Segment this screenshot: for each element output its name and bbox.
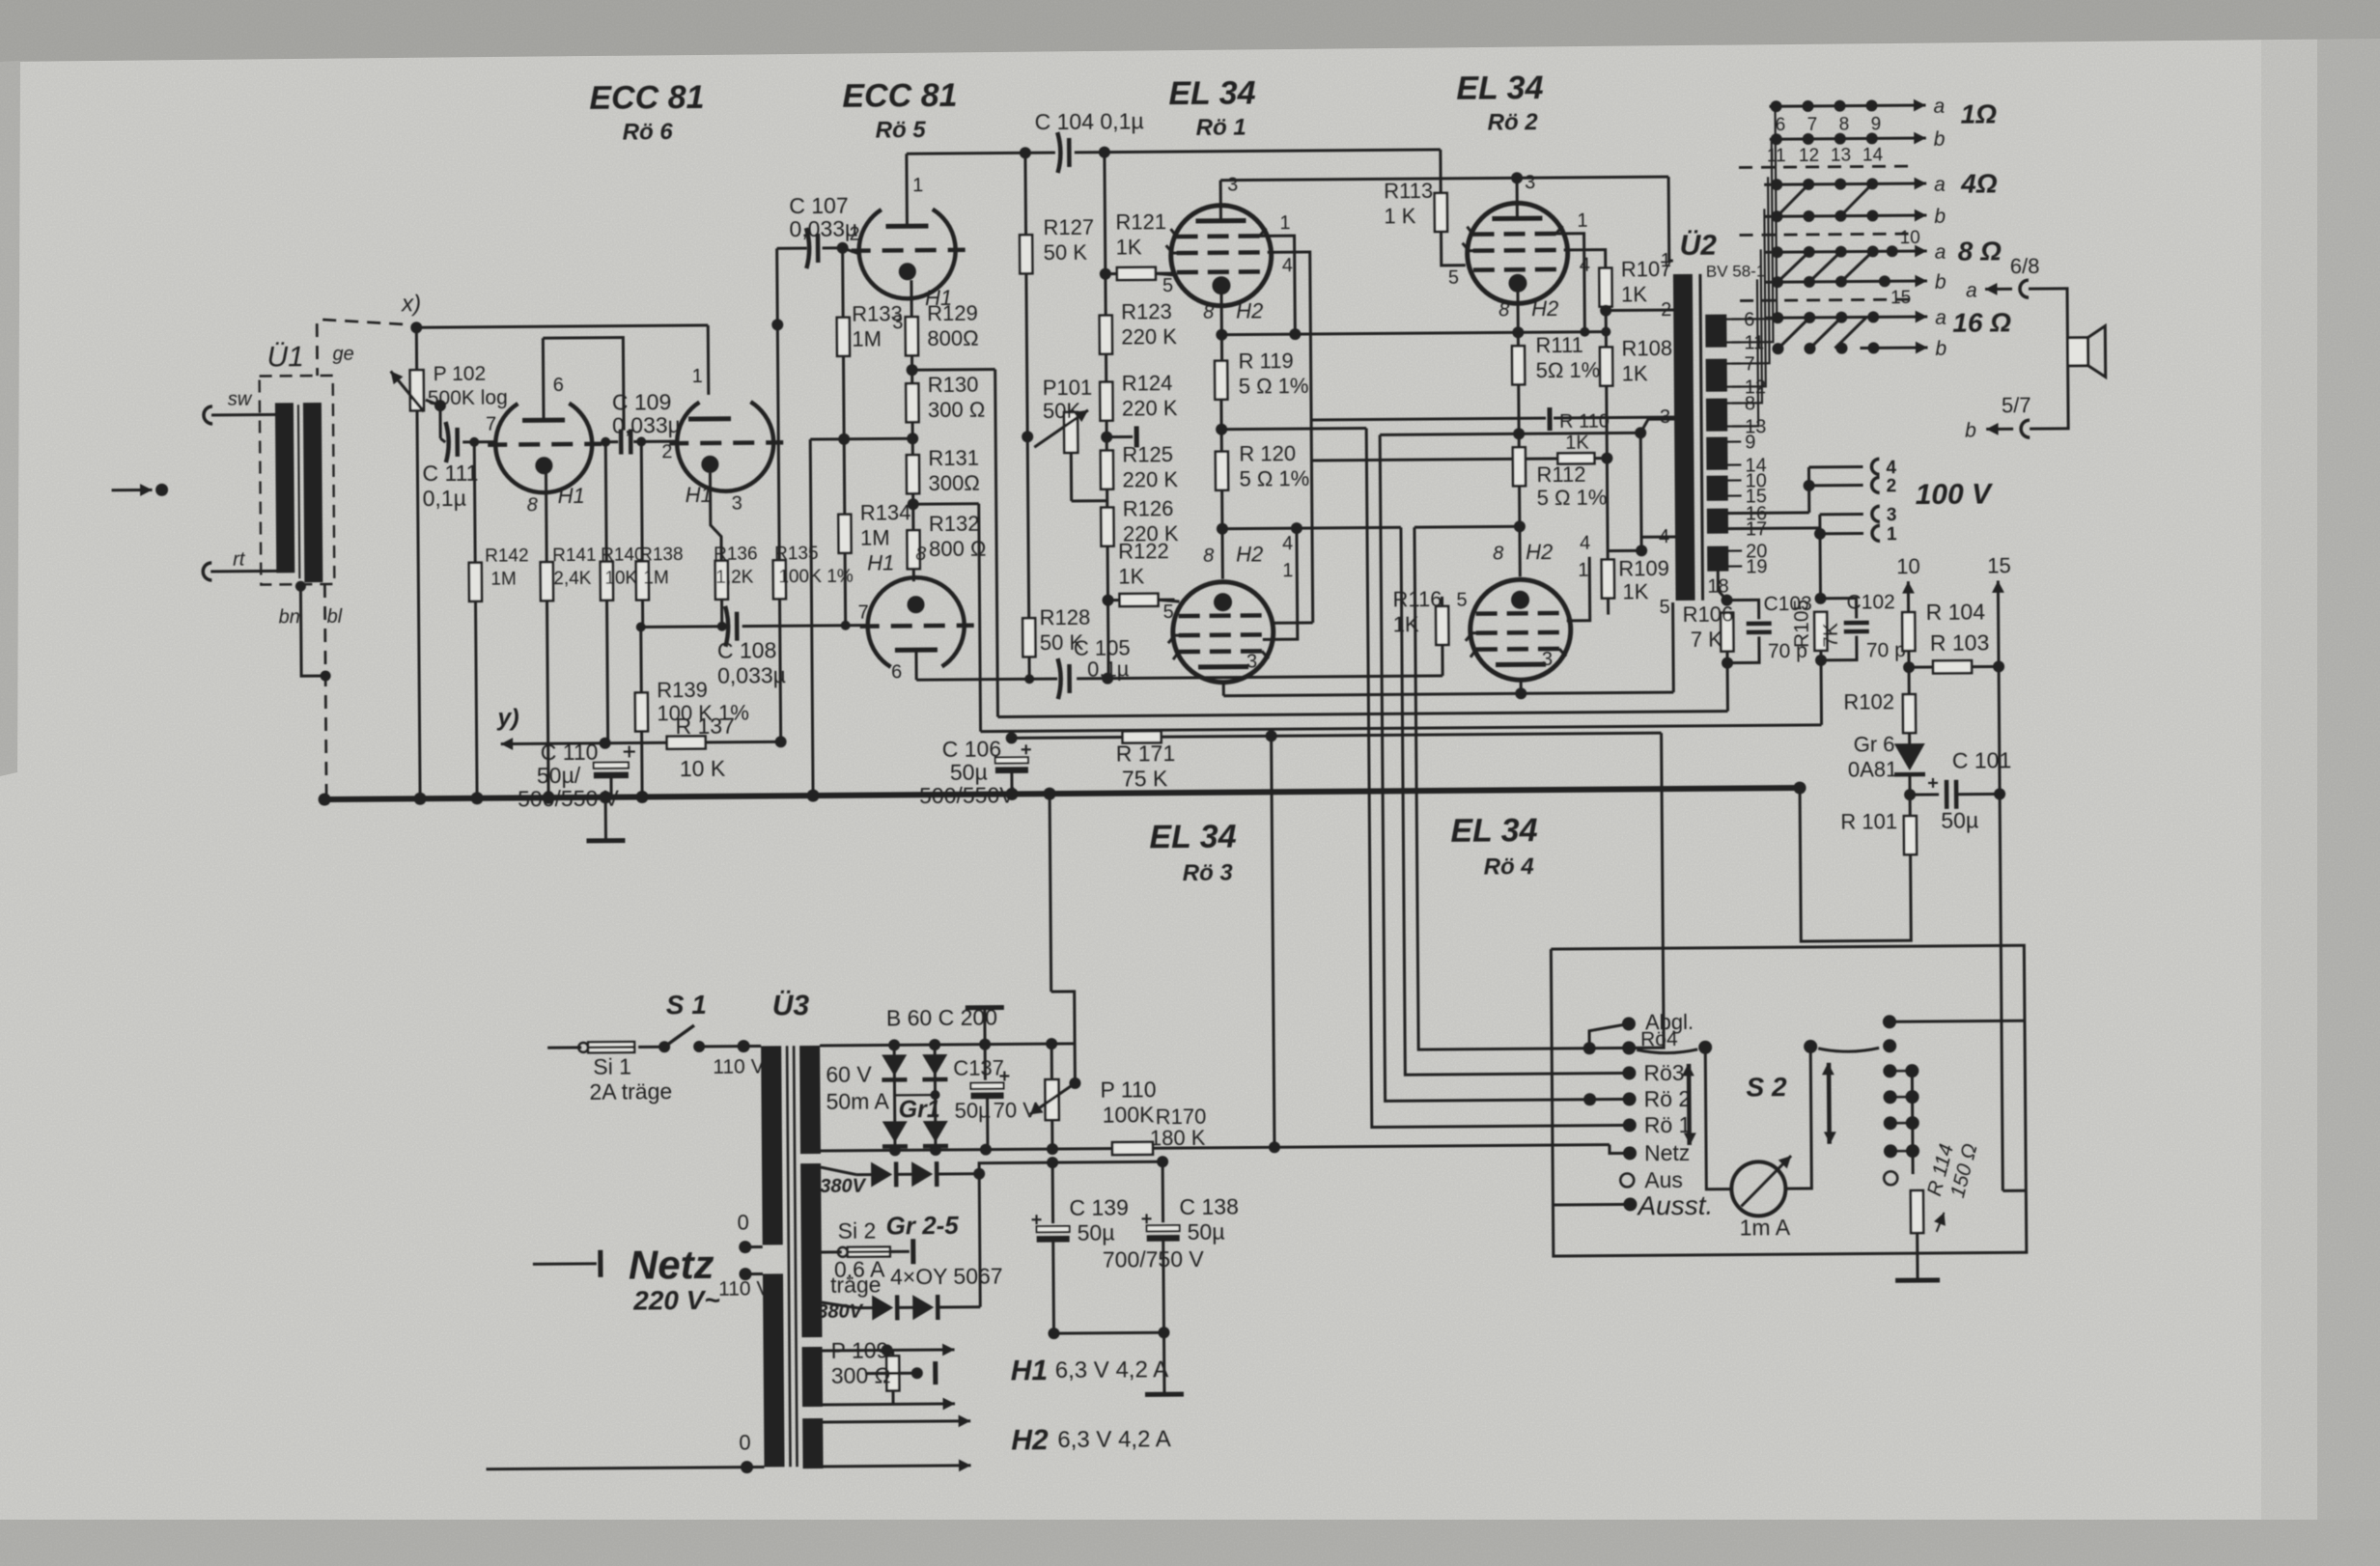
resistor R124 xyxy=(1100,382,1112,421)
resistor R129 xyxy=(906,317,918,355)
wire R109 top to column xyxy=(1608,549,1641,552)
svg-text:3: 3 xyxy=(892,312,903,333)
svg-text:220 K: 220 K xyxy=(1122,467,1178,491)
wire C107 to pin2 node xyxy=(823,246,843,249)
meter 1mA xyxy=(1731,1161,1785,1216)
node R170 bias junction xyxy=(1269,1141,1280,1153)
svg-text:5 Ω 1%: 5 Ω 1% xyxy=(1239,466,1309,491)
svg-text:8: 8 xyxy=(527,494,538,516)
svg-text:Rö 1: Rö 1 xyxy=(1644,1112,1692,1137)
svg-text:0,033µ: 0,033µ xyxy=(612,412,681,438)
svg-text:0,1µ: 0,1µ xyxy=(423,486,466,511)
svg-text:1M: 1M xyxy=(852,326,882,350)
node R121 left xyxy=(1100,268,1111,280)
svg-text:2: 2 xyxy=(1887,476,1897,496)
wire lower plates line to tap5 xyxy=(1223,692,1673,696)
svg-text:8 Ω: 8 Ω xyxy=(1958,236,2002,266)
svg-text:15: 15 xyxy=(1987,553,2011,577)
wire 15 to box xyxy=(2002,1189,2026,1192)
open contact O xyxy=(1884,1171,1897,1185)
svg-text:Rö 1: Rö 1 xyxy=(1196,115,1246,141)
svg-text:Rö 4: Rö 4 xyxy=(1484,853,1534,880)
svg-text:1: 1 xyxy=(1578,560,1588,581)
svg-text:1K: 1K xyxy=(1622,361,1648,385)
matrix 16 ohm diagonals xyxy=(1778,318,1809,349)
svg-text:300 Ω: 300 Ω xyxy=(928,398,985,422)
capacitor C138 xyxy=(1162,1161,1164,1222)
svg-text:300 Ω: 300 Ω xyxy=(831,1362,891,1387)
svg-text:1: 1 xyxy=(912,175,923,196)
svg-text:rt: rt xyxy=(233,549,246,571)
svg-text:220 K: 220 K xyxy=(1122,396,1178,420)
svg-text:Ü1: Ü1 xyxy=(266,341,304,373)
svg-text:R122: R122 xyxy=(1118,539,1169,563)
svg-text:70 p: 70 p xyxy=(1866,639,1906,661)
tube Ro5 triode A xyxy=(858,209,956,298)
svg-text:H1: H1 xyxy=(867,550,894,574)
capacitor C101 xyxy=(1910,793,1939,796)
svg-text:EL 34: EL 34 xyxy=(1456,70,1543,107)
svg-text:7: 7 xyxy=(1807,115,1818,135)
matrix tap connection wires xyxy=(1730,106,1778,319)
svg-text:C 139: C 139 xyxy=(1069,1194,1129,1219)
svg-text:R 119: R 119 xyxy=(1238,349,1293,373)
svg-text:8: 8 xyxy=(915,544,926,565)
node R171 right xyxy=(1266,730,1277,741)
test bar R110 xyxy=(1312,418,1546,420)
S2 selector arrows right xyxy=(1827,1063,1831,1144)
transformer U1 primary bar xyxy=(275,403,294,573)
svg-text:1 K: 1 K xyxy=(1384,204,1416,228)
resistor R134 xyxy=(843,439,847,516)
svg-text:380V: 380V xyxy=(820,1176,867,1197)
svg-text:3: 3 xyxy=(1542,649,1553,670)
svg-text:R131: R131 xyxy=(928,446,979,470)
connector 100V no2 xyxy=(1872,477,1880,492)
wire R116 bottom xyxy=(1441,644,1443,676)
wire Ro3 pin4 row xyxy=(1271,621,1313,624)
svg-text:100: 100 xyxy=(778,567,809,587)
wire Ro5B plate down xyxy=(914,650,917,680)
resistor R103 xyxy=(1909,665,1933,668)
connector 100V no3 xyxy=(1872,506,1880,521)
node pin2 Ro5 xyxy=(837,242,849,254)
wire tap3 column down xyxy=(1639,433,1643,550)
node C106 top xyxy=(1006,732,1018,743)
resistor R133 xyxy=(841,248,845,319)
tube Ro6 triode B xyxy=(677,402,774,491)
svg-text:b: b xyxy=(1934,128,1946,151)
svg-text:R113: R113 xyxy=(1384,179,1433,203)
node Ro1 cathode junction xyxy=(1219,399,1222,453)
node feeder Ro4 xyxy=(1583,1042,1596,1054)
wire Ro3 pin1 row xyxy=(1262,528,1298,639)
svg-text:ECC 81: ECC 81 xyxy=(842,77,957,115)
svg-text:9: 9 xyxy=(1745,432,1755,453)
resistor R101 xyxy=(1904,816,1917,854)
resistor R111 xyxy=(1512,346,1525,384)
wire bl dashed down to bus xyxy=(324,584,326,797)
svg-text:0: 0 xyxy=(739,1431,750,1455)
svg-text:6: 6 xyxy=(553,375,564,396)
svg-text:1m A: 1m A xyxy=(1740,1215,1791,1240)
heater H2 wires xyxy=(823,1421,955,1422)
svg-text:50m A: 50m A xyxy=(826,1088,889,1114)
transformer U2 core line xyxy=(1700,274,1703,601)
svg-text:y): y) xyxy=(495,704,518,731)
capacitor C109 xyxy=(619,430,624,455)
svg-text:ECC 81: ECC 81 xyxy=(589,79,704,117)
resistor R142 xyxy=(469,437,479,447)
svg-text:10 K: 10 K xyxy=(680,756,726,781)
meter wire left xyxy=(1705,1048,1731,1189)
svg-text:70 V: 70 V xyxy=(994,1098,1038,1122)
capacitor C102 xyxy=(1821,599,1857,619)
wire Ro1 plate riser xyxy=(1219,181,1222,221)
svg-text:100 V: 100 V xyxy=(1916,478,1995,511)
node R106 top xyxy=(1721,595,1732,606)
node R105 top xyxy=(1814,593,1826,604)
svg-text:C 109: C 109 xyxy=(612,389,672,414)
transformer U3 primary bar upper xyxy=(761,1046,783,1244)
wire HV top 380V xyxy=(821,1167,856,1175)
transformer U2 primary bar xyxy=(1673,274,1695,601)
svg-text:50K: 50K xyxy=(1043,399,1081,423)
bridge Gr1 top rail xyxy=(820,1044,1074,1046)
svg-text:8: 8 xyxy=(1203,302,1214,323)
wire P102 down to bus xyxy=(417,410,420,798)
svg-text:60 V: 60 V xyxy=(826,1062,872,1087)
tube Ro6 triode A xyxy=(495,403,593,492)
svg-text:110 V: 110 V xyxy=(713,1055,765,1077)
wire R127 to R128 xyxy=(1026,272,1029,619)
wire 6/8 to speaker xyxy=(2029,289,2068,429)
node C105 right xyxy=(1102,673,1113,685)
transformer U1 dashed box xyxy=(260,376,335,585)
diode HV1b xyxy=(911,1161,933,1187)
wire x to P102 and plate line xyxy=(416,325,708,327)
wire Ro2 cathode down xyxy=(1517,292,1520,347)
svg-text:BV 58-1: BV 58-1 xyxy=(1706,262,1766,280)
tube Ro3 EL34 xyxy=(1172,581,1274,683)
wire R120 to Ro3 cathode xyxy=(1220,489,1224,579)
test bar right of P101 xyxy=(1106,435,1133,438)
svg-text:C 101: C 101 xyxy=(1952,747,2012,772)
matrix group 1 ohm row b xyxy=(1770,138,1926,139)
svg-text:H2: H2 xyxy=(1531,296,1558,321)
switch S1 xyxy=(638,1046,664,1049)
connector rt xyxy=(203,563,211,580)
svg-text:Si 2: Si 2 xyxy=(838,1218,877,1244)
svg-text:R132: R132 xyxy=(929,512,980,536)
svg-text:R108: R108 xyxy=(1621,336,1672,360)
wire block18 to R106 xyxy=(1718,572,1726,601)
ground below C138 xyxy=(1162,1332,1166,1394)
wire Ro1 g1 from R121 xyxy=(1156,273,1177,275)
node R105 bottom xyxy=(1819,650,1822,660)
svg-text:Rö4: Rö4 xyxy=(1640,1028,1678,1050)
tube Ro1 EL34 xyxy=(1170,205,1272,306)
capacitor C104 xyxy=(1057,132,1060,173)
node C109 right xyxy=(636,436,646,446)
svg-text:R111: R111 xyxy=(1535,333,1583,357)
potentiometer P109 xyxy=(886,1356,899,1390)
resistor R141 xyxy=(545,473,548,563)
resistor R140 xyxy=(604,442,608,563)
svg-text:R 103: R 103 xyxy=(1930,629,1990,655)
svg-text:50µ: 50µ xyxy=(950,760,988,785)
svg-text:5: 5 xyxy=(1456,590,1467,611)
diode Gr1 d xyxy=(923,1121,948,1142)
node R106 bottom xyxy=(1725,651,1728,663)
svg-text:R141: R141 xyxy=(552,545,597,566)
svg-text:R129: R129 xyxy=(927,301,978,325)
svg-text:R 120: R 120 xyxy=(1239,441,1296,465)
matrix group 1 ohm row a xyxy=(1770,105,1926,106)
svg-text:2,4K: 2,4K xyxy=(553,569,592,589)
wire column R123 xyxy=(1105,153,1106,317)
U3 secondary bar HV xyxy=(800,1163,822,1337)
wire R112 to Ro4 cathode xyxy=(1518,485,1522,576)
paper speckle xyxy=(0,0,1,1)
svg-text:7: 7 xyxy=(486,414,496,435)
svg-text:700/750 V: 700/750 V xyxy=(1103,1246,1205,1272)
svg-text:R136: R136 xyxy=(714,544,758,564)
svg-text:1: 1 xyxy=(1887,524,1897,545)
svg-text:EL 34: EL 34 xyxy=(1168,74,1255,112)
svg-text:5Ω 1%: 5Ω 1% xyxy=(1536,358,1601,383)
svg-text:1M: 1M xyxy=(490,569,517,589)
resistor R102 xyxy=(1903,694,1916,733)
wire feedback to R106 line xyxy=(912,368,995,372)
svg-text:Rö 2: Rö 2 xyxy=(1643,1086,1691,1111)
node Ro2 cathode junction xyxy=(1517,383,1521,448)
wire junction to bus riser xyxy=(810,437,844,440)
node Ro2 plate xyxy=(1511,172,1523,183)
svg-text:x): x) xyxy=(401,291,421,317)
node C104 right xyxy=(1099,147,1110,158)
resistor R123 xyxy=(1100,316,1112,354)
wire feedback to R105 line xyxy=(913,502,979,506)
wire R139 bottom to bus xyxy=(640,730,644,797)
wire Ro1 pin1 to pin8 node xyxy=(1260,236,1296,334)
Netz input symbol xyxy=(533,1262,597,1266)
node R110 right xyxy=(1601,453,1612,464)
svg-text:R 104: R 104 xyxy=(1926,600,1986,625)
svg-text:10: 10 xyxy=(1896,554,1920,578)
S2 left contacts xyxy=(1622,1017,1636,1030)
ground above bridge xyxy=(966,1005,1004,1010)
svg-text:3: 3 xyxy=(1246,651,1257,672)
svg-text:R139: R139 xyxy=(657,678,708,702)
svg-text:1: 1 xyxy=(1282,560,1293,581)
matrix group 16 ohm row a xyxy=(1765,317,1927,318)
wire Ro5A plate riser xyxy=(905,154,909,226)
wire R130 junction left xyxy=(844,437,912,441)
wire rt to U1 xyxy=(210,570,276,573)
node C110 xyxy=(600,738,611,749)
diode Gr6 0A81 xyxy=(1908,732,1911,745)
wire Ro5A cathode to R129 xyxy=(910,280,912,318)
S2 selector arrows left xyxy=(1687,1064,1691,1145)
node R130 bottom xyxy=(911,421,914,456)
svg-text:C 106: C 106 xyxy=(942,737,1002,762)
S2 box outline xyxy=(1551,945,2026,1256)
svg-text:EL 34: EL 34 xyxy=(1149,819,1236,856)
bridge bottom rail xyxy=(821,1148,1187,1151)
wire sw to Ü1 xyxy=(211,413,275,417)
svg-text:1K: 1K xyxy=(1118,564,1144,588)
resistor R109 xyxy=(1602,560,1614,599)
S2 wiper left xyxy=(1637,1049,1697,1053)
svg-text:4: 4 xyxy=(1886,458,1896,478)
svg-text:1: 1 xyxy=(1661,250,1671,271)
wire C139 C138 bottom rail xyxy=(1053,1331,1163,1335)
svg-text:H1: H1 xyxy=(686,483,713,507)
svg-text:Rö3: Rö3 xyxy=(1643,1060,1684,1085)
connector 100V no1 xyxy=(1872,525,1880,541)
dashed separator 2 xyxy=(1740,234,1918,235)
svg-text:R 110: R 110 xyxy=(1559,411,1610,433)
resistor R137 xyxy=(618,741,667,744)
svg-text:12: 12 xyxy=(1799,146,1819,166)
wire Abgl jog xyxy=(1589,1023,1629,1048)
resistor R139 xyxy=(639,627,643,693)
capacitor C107 xyxy=(806,228,809,268)
resistor R170 xyxy=(1052,1147,1111,1150)
wire R135 bottom xyxy=(779,598,780,741)
wire top line C104 xyxy=(907,153,1055,154)
tube Ro2 EL34 xyxy=(1467,203,1568,304)
capacitor C139 xyxy=(1051,1162,1054,1223)
svg-text:9: 9 xyxy=(1871,114,1882,134)
svg-text:0,033µ: 0,033µ xyxy=(717,662,786,688)
resistor R114 xyxy=(1912,1151,1915,1174)
svg-text:10: 10 xyxy=(1900,228,1920,248)
svg-text:3: 3 xyxy=(1227,175,1238,196)
svg-text:1M: 1M xyxy=(860,525,890,549)
svg-text:6/8: 6/8 xyxy=(2010,254,2040,278)
svg-text:a: a xyxy=(1935,307,1946,329)
matrix group 16 ohm row b xyxy=(1860,347,1877,350)
svg-text:B 60 C 200: B 60 C 200 xyxy=(886,1005,997,1031)
matrix 8 ohm diagonals xyxy=(1778,252,1809,282)
primary bottom wire xyxy=(487,1467,765,1468)
svg-text:H2: H2 xyxy=(1011,1424,1049,1456)
svg-text:C137: C137 xyxy=(953,1056,1004,1080)
svg-text:b: b xyxy=(1965,420,1976,442)
matrix 4 ohm diagonals xyxy=(1777,184,1808,216)
capacitor C137 xyxy=(984,1045,987,1080)
svg-text:6: 6 xyxy=(1776,115,1786,135)
connector 100V no4 xyxy=(1871,459,1879,474)
svg-text:R127: R127 xyxy=(1043,215,1094,239)
svg-text:50µ: 50µ xyxy=(1941,808,1978,833)
resistor R110 body xyxy=(1557,453,1594,463)
svg-text:8: 8 xyxy=(1498,299,1509,321)
svg-text:5: 5 xyxy=(1162,275,1173,296)
diode Gr1 b xyxy=(922,1054,947,1076)
ground below C110 xyxy=(604,797,607,841)
svg-text:50 K: 50 K xyxy=(1044,240,1088,265)
wire Ro2 pin1 xyxy=(1556,234,1585,332)
svg-text:R124: R124 xyxy=(1122,371,1173,395)
node R103 left xyxy=(1907,651,1910,695)
resistor R126 xyxy=(1101,508,1113,546)
wire Ro1 cathode down xyxy=(1220,294,1224,361)
wire pin8 line right xyxy=(1221,332,1606,335)
diode Gr1 a xyxy=(882,1054,907,1076)
svg-text:0A81: 0A81 xyxy=(1848,757,1898,781)
diode HV2a xyxy=(872,1295,893,1320)
svg-text:Rö 2: Rö 2 xyxy=(1488,109,1539,135)
svg-text:a: a xyxy=(1935,241,1946,264)
svg-text:6: 6 xyxy=(891,661,902,683)
wire R101 bottom loop xyxy=(1800,787,1911,941)
svg-text:C 107: C 107 xyxy=(789,193,849,218)
svg-text:4×OY 5067: 4×OY 5067 xyxy=(890,1264,1003,1290)
S2 wiper right xyxy=(1818,1048,1879,1051)
svg-text:S 1: S 1 xyxy=(666,990,707,1020)
svg-text:3: 3 xyxy=(1887,505,1897,525)
heater H1 wires xyxy=(823,1349,939,1353)
svg-text:R109: R109 xyxy=(1618,556,1669,580)
svg-text:Rö 6: Rö 6 xyxy=(623,119,674,145)
svg-text:R123: R123 xyxy=(1121,299,1172,323)
matrix group 8 ohm row b xyxy=(1765,280,1877,284)
wire R105 to feedback line xyxy=(1820,660,1824,725)
U3 secondary bar H2 xyxy=(802,1418,823,1468)
node C109 left xyxy=(601,437,610,447)
wire R106 to feedback line xyxy=(1726,663,1729,712)
svg-text:1Ω: 1Ω xyxy=(1960,98,1997,128)
svg-text:Ü2: Ü2 xyxy=(1680,230,1718,262)
svg-text:R121: R121 xyxy=(1115,210,1166,234)
S2 feeder D wire xyxy=(1414,526,1589,1049)
svg-text:500/550V: 500/550V xyxy=(919,782,1015,808)
svg-text:P 110: P 110 xyxy=(1100,1077,1156,1102)
svg-text:R 101: R 101 xyxy=(1840,809,1897,833)
svg-text:R 171: R 171 xyxy=(1116,741,1176,766)
svg-text:7 K: 7 K xyxy=(1691,628,1723,652)
svg-text:7: 7 xyxy=(858,602,869,624)
node R131 bottom xyxy=(911,492,914,531)
capacitor C108 xyxy=(722,625,725,628)
U2 secondary blocks xyxy=(1705,315,1726,348)
wire to S2 feeder D xyxy=(1414,525,1520,529)
wire R113 to Ro2 g1 xyxy=(1442,231,1466,266)
svg-text:R130: R130 xyxy=(928,373,979,397)
S2 right column link xyxy=(1911,1071,1915,1151)
svg-text:5/7: 5/7 xyxy=(2002,393,2031,417)
resistor R131 xyxy=(907,455,919,493)
node R103 right xyxy=(1993,660,2004,672)
100V output wires xyxy=(1728,511,1809,515)
wire Ro6B cathode down xyxy=(710,473,721,562)
node x) xyxy=(410,322,422,333)
svg-text:4: 4 xyxy=(1282,533,1293,554)
node below U1 xyxy=(295,581,306,592)
svg-text:5: 5 xyxy=(1660,597,1670,618)
svg-text:1,2K: 1,2K xyxy=(715,568,754,588)
svg-text:110 V: 110 V xyxy=(718,1277,770,1300)
node grid junction xyxy=(1106,420,1108,452)
node Ro4 plate xyxy=(1515,687,1526,699)
svg-text:a: a xyxy=(1966,280,1977,302)
svg-text:50µ: 50µ xyxy=(1188,1219,1225,1244)
primary tap 0 xyxy=(739,1241,751,1253)
svg-text:8: 8 xyxy=(1493,543,1503,564)
